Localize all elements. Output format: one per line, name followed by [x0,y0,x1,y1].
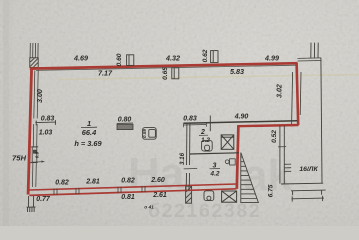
svg-text:0.52: 0.52 [271,130,278,143]
partition wall rooms 2/3 [190,153,239,154]
svg-text:4.2: 4.2 [209,171,219,178]
hatched window block below bottom-left corner [27,196,36,212]
fraction line [81,126,97,128]
top wall inner black face [36,65,296,70]
svg-text:4.69: 4.69 [73,54,88,63]
svg-text:0.81: 0.81 [121,194,135,201]
svg-text:5.83: 5.83 [230,67,244,76]
triple lines stub top-right [311,43,318,58]
svg-text:75Н: 75Н [12,154,26,163]
bathroom top wall [184,121,298,124]
svg-text:7.17: 7.17 [98,69,113,78]
left wall inner black segments [32,71,38,188]
0.52 tick [278,146,286,148]
vent duct 3 above wall [211,51,218,63]
svg-text:3.00: 3.00 [37,89,44,103]
window ticks on bottom wall [54,185,189,195]
dim underline with ticks [183,122,206,127]
highlighter streak [58,75,359,80]
svg-text:4.32: 4.32 [165,54,180,63]
svg-text:1.03: 1.03 [39,130,53,137]
svg-text:h = 3.69: h = 3.69 [74,139,102,148]
svg-text:0.77: 0.77 [36,196,51,203]
bottom wall inner red [29,184,236,190]
vent duct 1 above wall [127,55,134,66]
svg-text:0.83: 0.83 [183,116,197,123]
door arrow [31,160,44,162]
svg-text:4.99: 4.99 [264,54,279,63]
svg-text:6.75: 6.75 [268,184,275,197]
underline [117,122,133,124]
pier black line inner [292,72,293,125]
sink room 3 [225,159,235,165]
bottom wall outer red [29,189,236,196]
svg-text:66.4: 66.4 [82,128,96,137]
hall double wall [280,126,284,184]
svg-text:0.60: 0.60 [116,53,123,66]
long stairwell outer wall [321,58,322,183]
svg-text:б22162382: б22162382 [148,200,261,222]
vent duct 2 below wall [172,68,179,79]
window on left wall [30,147,38,163]
hatched bar [117,124,133,129]
svg-text:0.82: 0.82 [121,178,135,185]
pier black line outer [299,72,302,115]
right wall red [297,63,299,126]
toilet 2 [204,191,214,201]
dim tick at 0.83/4.90 [209,116,211,132]
washing box with X [222,191,237,202]
svg-text:0.59: 0.59 [142,129,147,138]
bottom landing lines [281,183,326,201]
svg-text:4.90: 4.90 [234,114,249,121]
svg-text:1: 1 [87,119,91,128]
svg-text:о 41: о 41 [144,205,154,211]
double line to stair wall [298,58,322,61]
stair door ticks [285,164,292,171]
svg-text:0.83: 0.83 [41,116,55,123]
red corner horizontal [238,125,299,126]
svg-text:0.80: 0.80 [118,116,132,123]
svg-text:2.60: 2.60 [150,177,165,184]
svg-text:0.82: 0.82 [55,179,69,186]
window sash mark [33,150,37,154]
svg-text:3.02: 3.02 [277,84,284,98]
dim line 0.83 with ticks [35,120,56,125]
svg-text:2.81: 2.81 [85,178,100,185]
svg-text:0.62: 0.62 [202,49,209,62]
hatched wall block top-left [30,58,38,68]
toilet [202,140,213,151]
svg-text:2.61: 2.61 [152,192,167,199]
bathroom left wall double [186,123,190,186]
wall stub triple lines [30,43,38,58]
top wall red line [30,63,297,68]
svg-text:16/ЛК: 16/ЛК [299,166,318,173]
svg-text:0.9: 0.9 [35,151,40,158]
door tick room 3 [184,168,198,170]
left paper crease shadow [3,0,9,226]
hatched wall block bottom of bathroom wall [186,186,192,203]
red hall vertical [237,125,239,189]
svg-text:3.16: 3.16 [179,152,186,165]
left wall red [28,68,32,195]
svg-text:0.65: 0.65 [162,67,169,80]
watermark [128,149,292,222]
shower tray [221,135,234,149]
